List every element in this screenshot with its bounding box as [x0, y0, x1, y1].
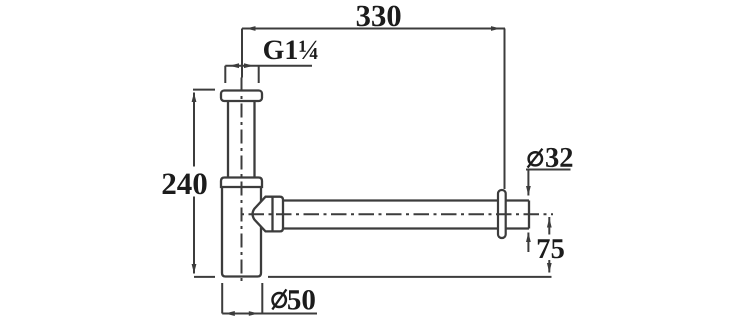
dimension G1 1/4 line and leader — [225, 65, 312, 67]
dimension G1 1/4 left extension line — [224, 66, 226, 83]
label 330 — [357, 6, 401, 27]
dimension 240 top arrow — [192, 93, 197, 103]
inlet pipe left edge — [227, 101, 229, 178]
label o50 — [272, 289, 315, 309]
inlet pipe right edge — [253, 101, 255, 178]
dimension 75 bottom extension line — [268, 276, 552, 278]
dimension 75 line — [548, 217, 550, 273]
dimension o32 leader underline — [526, 169, 571, 171]
dimension G1 1/4 right arrow — [244, 63, 254, 68]
dimension 75 bottom arrow — [547, 263, 552, 273]
dimension 240 line — [193, 93, 195, 274]
outlet pipe end edge — [528, 201, 530, 229]
dimension o32 lower arrow — [526, 233, 531, 243]
label o32 — [528, 148, 573, 168]
dimension 330 line — [242, 28, 505, 30]
dimension 330 left arrow — [246, 26, 256, 31]
dimension 240 bottom extension line — [194, 276, 215, 278]
wall flange — [498, 190, 506, 238]
vertical centerline of trap — [241, 78, 243, 282]
dimension o32 lower arrow line — [527, 233, 529, 253]
dimension o32 upper arrow line — [527, 170, 529, 196]
dimension 75 top arrow — [547, 218, 552, 228]
dimension 330 left extension line — [241, 29, 243, 78]
dimension G1 1/4 right extension line — [258, 66, 260, 83]
text mask for 75 — [536, 235, 565, 261]
dimension G1 1/4 left arrow — [230, 63, 240, 68]
trap body cylinder — [222, 187, 261, 277]
horizontal centerline of outlet pipe — [237, 213, 553, 215]
dimension 330 right arrow — [491, 26, 501, 31]
dimension 240 top extension line — [193, 89, 215, 91]
label 75 — [538, 239, 564, 258]
text mask for 240 — [159, 167, 210, 197]
dimension o50 right arrow — [249, 311, 258, 316]
dimension o50 line — [222, 313, 317, 315]
dimension o50 left extension line — [221, 283, 223, 314]
dimension 240 bottom arrow — [192, 264, 197, 274]
outlet nut separator line — [271, 197, 273, 232]
dimension 330 right extension line — [504, 29, 506, 190]
dimension o32 upper arrow — [526, 186, 531, 196]
outlet pipe bottom edge — [283, 227, 529, 229]
label G1 1/4 — [264, 41, 318, 60]
dimension o50 right extension line — [261, 283, 263, 314]
inlet cap flange — [221, 91, 262, 102]
outlet cone joint and nut — [253, 197, 283, 232]
label 240 — [163, 173, 207, 194]
trap body top ring nut — [221, 178, 262, 188]
outlet pipe top edge — [283, 199, 529, 201]
dimension o50 left arrow — [225, 311, 235, 316]
